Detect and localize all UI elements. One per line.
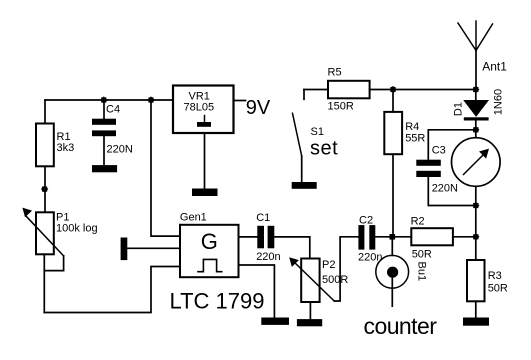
svg-text:3k3: 3k3 xyxy=(57,142,75,154)
ground below R3 xyxy=(463,318,489,326)
wire meter top to C3 xyxy=(428,130,476,160)
junction dot meter bottom / C3 xyxy=(472,202,479,209)
resistor R5 xyxy=(328,81,370,99)
svg-text:counter: counter xyxy=(364,313,438,339)
resistor R3 xyxy=(467,237,485,318)
switch S1 xyxy=(293,90,305,183)
svg-text:220n: 220n xyxy=(256,251,280,263)
junction dot antenna/rail xyxy=(472,86,479,93)
antenna Ant1 xyxy=(458,21,493,90)
svg-text:Bu1: Bu1 xyxy=(416,262,428,282)
junction dot R4 top xyxy=(389,86,396,93)
svg-text:R4: R4 xyxy=(405,121,419,133)
capacitor C4 xyxy=(92,100,116,165)
svg-text:P2: P2 xyxy=(322,259,335,271)
junction dot V+ drop on rail xyxy=(147,96,154,103)
svg-text:220N: 220N xyxy=(107,144,133,156)
svg-text:S1: S1 xyxy=(311,126,324,138)
svg-text:LTC 1799: LTC 1799 xyxy=(170,289,265,314)
potentiometer P2 xyxy=(290,258,334,319)
wire V+ rail down to Gen1 V+ pin xyxy=(151,100,180,236)
capacitor C3 xyxy=(416,160,476,206)
svg-text:G: G xyxy=(201,229,218,254)
svg-text:50R: 50R xyxy=(412,248,432,260)
junction dot C4/rail xyxy=(100,96,107,103)
svg-text:50R: 50R xyxy=(488,283,508,295)
svg-text:1N60: 1N60 xyxy=(492,89,504,115)
wire VR1 ground lead xyxy=(204,133,206,189)
ground below VR1 xyxy=(192,189,218,197)
svg-text:220N: 220N xyxy=(432,183,458,195)
svg-text:set: set xyxy=(310,138,338,160)
node between R1 and P1 xyxy=(41,185,48,192)
svg-text:220n: 220n xyxy=(358,252,382,264)
potentiometer P1 xyxy=(23,208,64,312)
svg-text:150R: 150R xyxy=(328,101,354,113)
regulator VR1 box xyxy=(173,86,234,134)
svg-text:R2: R2 xyxy=(411,215,425,227)
Gen1 oscillator box xyxy=(180,225,239,277)
wire S1 to R5 xyxy=(304,89,328,91)
resistor R2 xyxy=(392,228,476,245)
svg-text:C3: C3 xyxy=(432,145,446,157)
junction dot D1 cathode xyxy=(472,126,479,133)
svg-text:78L05: 78L05 xyxy=(184,102,215,114)
svg-text:D1: D1 xyxy=(452,102,464,116)
resistor R4 xyxy=(384,90,402,237)
ground below S1 xyxy=(292,182,317,189)
ground stub terminal left of Gen1 xyxy=(121,238,180,261)
svg-text:500R: 500R xyxy=(322,274,348,286)
svg-text:55R: 55R xyxy=(405,132,425,144)
resistor R1 xyxy=(36,100,54,212)
socket Bu1 xyxy=(376,237,409,306)
ground below C4 xyxy=(92,165,117,172)
svg-text:R3: R3 xyxy=(488,270,502,282)
wire Gen1 lower-right pin to ground xyxy=(239,265,275,318)
svg-text:C4: C4 xyxy=(106,104,120,116)
capacitor C2 xyxy=(358,225,392,250)
wire VR1 output pin 9V xyxy=(234,100,246,102)
meter M1 xyxy=(452,130,501,237)
wire top-left rail from R1 to VR1 xyxy=(45,99,173,101)
svg-text:VR1: VR1 xyxy=(189,90,210,102)
junction dot C2 / R2 / Bu1 xyxy=(390,234,396,240)
svg-text:Gen1: Gen1 xyxy=(180,212,207,224)
svg-text:C2: C2 xyxy=(359,215,373,227)
svg-text:C1: C1 xyxy=(256,212,270,224)
svg-text:R5: R5 xyxy=(328,67,342,79)
svg-text:Ant1: Ant1 xyxy=(482,60,507,74)
junction dot R2 right xyxy=(472,233,479,240)
wire P1 bottom to Gen1 SET pin xyxy=(44,267,180,313)
capacitor C1 xyxy=(239,226,310,259)
svg-text:100k log: 100k log xyxy=(56,223,98,235)
ground below Gen1 output side xyxy=(261,318,289,325)
ground below P2 xyxy=(297,319,322,326)
wire R5 to antenna rail xyxy=(370,89,476,91)
svg-text:9V: 9V xyxy=(246,97,271,119)
wire P2 wiper to C2 xyxy=(334,237,358,301)
diode D1 xyxy=(464,90,489,130)
